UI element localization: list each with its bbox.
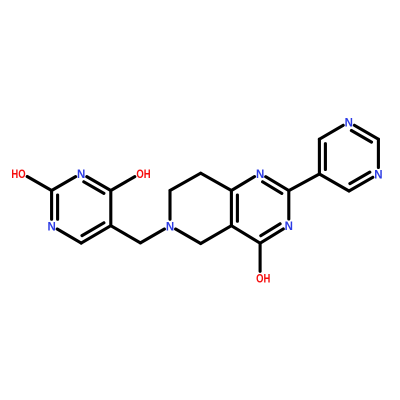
bond C4-OH (left ring) xyxy=(111,177,135,191)
bond C4-C5 (right ring) xyxy=(319,174,349,191)
bond C6-N1 (right ring) xyxy=(319,125,343,139)
bond CH2-N6 bridge xyxy=(140,229,164,243)
bond C8a-N1 (center ring) xyxy=(231,177,254,191)
svg-text:OH: OH xyxy=(136,169,150,181)
svg-text:N: N xyxy=(256,169,264,181)
bond N3-C6 (left ring) xyxy=(57,229,81,243)
bond C5-CH2 bridge xyxy=(111,226,141,243)
svg-text:N: N xyxy=(374,170,382,182)
svg-text:N: N xyxy=(47,221,55,233)
bond C2-N3 (center ring) xyxy=(287,191,290,219)
bond C2-N3 (right ring) xyxy=(377,139,380,167)
bond C5-C4 (left ring) xyxy=(109,191,112,226)
bond C4=N1 double (left ring) xyxy=(84,177,111,194)
bond C7-C8 (tetrahydro ring) xyxy=(170,173,201,190)
bond N3=C4 double (center ring) xyxy=(260,224,283,243)
svg-text:N: N xyxy=(345,118,353,130)
bond N1-C2 (left ring) xyxy=(52,177,76,191)
svg-text:N: N xyxy=(166,221,174,233)
bond C2=N3 double (left ring) xyxy=(52,191,58,220)
bond C5=C6 double (right ring) xyxy=(319,139,325,174)
bond C6=C5 double (left ring) xyxy=(81,223,111,243)
svg-text:N: N xyxy=(77,169,85,181)
svg-text:N: N xyxy=(285,221,293,233)
bond C4a-C5 (tetrahydro ring) xyxy=(201,226,232,244)
svg-text:OH: OH xyxy=(256,273,270,285)
bond C8-C8a (tetrahydro ring) xyxy=(201,173,232,190)
bond N3=C4 double (right ring) xyxy=(349,172,373,191)
bond C8a=C4a fusion double xyxy=(231,191,237,226)
bond HO-C2 (left ring) xyxy=(27,177,51,191)
bond C5-N6 (tetrahydro ring) xyxy=(176,229,201,244)
bond N1=C2 double (center ring) xyxy=(263,177,289,194)
bond C4-OH (center ring) xyxy=(259,243,262,271)
bond N6-C7 (tetrahydro ring) xyxy=(168,191,171,220)
bond C4-C4a (center ring) xyxy=(231,226,260,244)
bond N1=C2 double (right ring) xyxy=(351,125,378,142)
bond C2-C5 biaryl link xyxy=(289,174,320,191)
svg-text:HO: HO xyxy=(11,169,25,181)
